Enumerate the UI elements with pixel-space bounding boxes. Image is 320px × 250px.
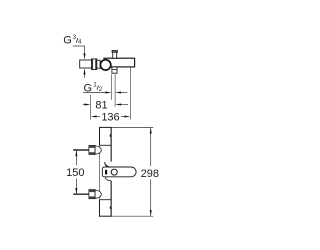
svg-text:G: G: [84, 83, 93, 95]
svg-text:136: 136: [101, 111, 119, 123]
svg-text:4: 4: [78, 39, 82, 45]
svg-text:G: G: [63, 35, 72, 47]
svg-text:81: 81: [95, 100, 107, 112]
svg-text:298: 298: [141, 168, 159, 180]
svg-text:1: 1: [93, 82, 97, 88]
svg-text:2: 2: [99, 87, 103, 93]
svg-text:3: 3: [73, 35, 77, 41]
svg-text:150: 150: [66, 167, 84, 179]
